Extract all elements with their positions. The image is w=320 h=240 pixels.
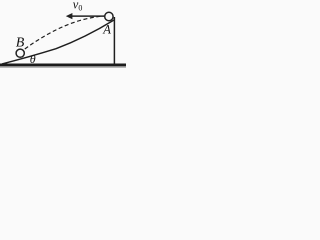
- ball B: [16, 49, 24, 57]
- incline hypotenuse: [2, 20, 114, 64]
- incline vertical side: [113, 17, 115, 65]
- ground hatch band: [0, 66, 126, 68]
- svg-text:A: A: [102, 23, 111, 37]
- svg-text:B: B: [16, 36, 25, 51]
- svg-text:θ: θ: [30, 52, 36, 66]
- velocity arrow: [72, 15, 105, 17]
- ground line: [0, 64, 126, 67]
- ball A: [105, 12, 113, 20]
- arrowhead: [66, 13, 73, 19]
- svg-text:v0: v0: [73, 0, 83, 13]
- dashed trajectory: [25, 16, 104, 49]
- physics incline diagram: [0, 0, 128, 81]
